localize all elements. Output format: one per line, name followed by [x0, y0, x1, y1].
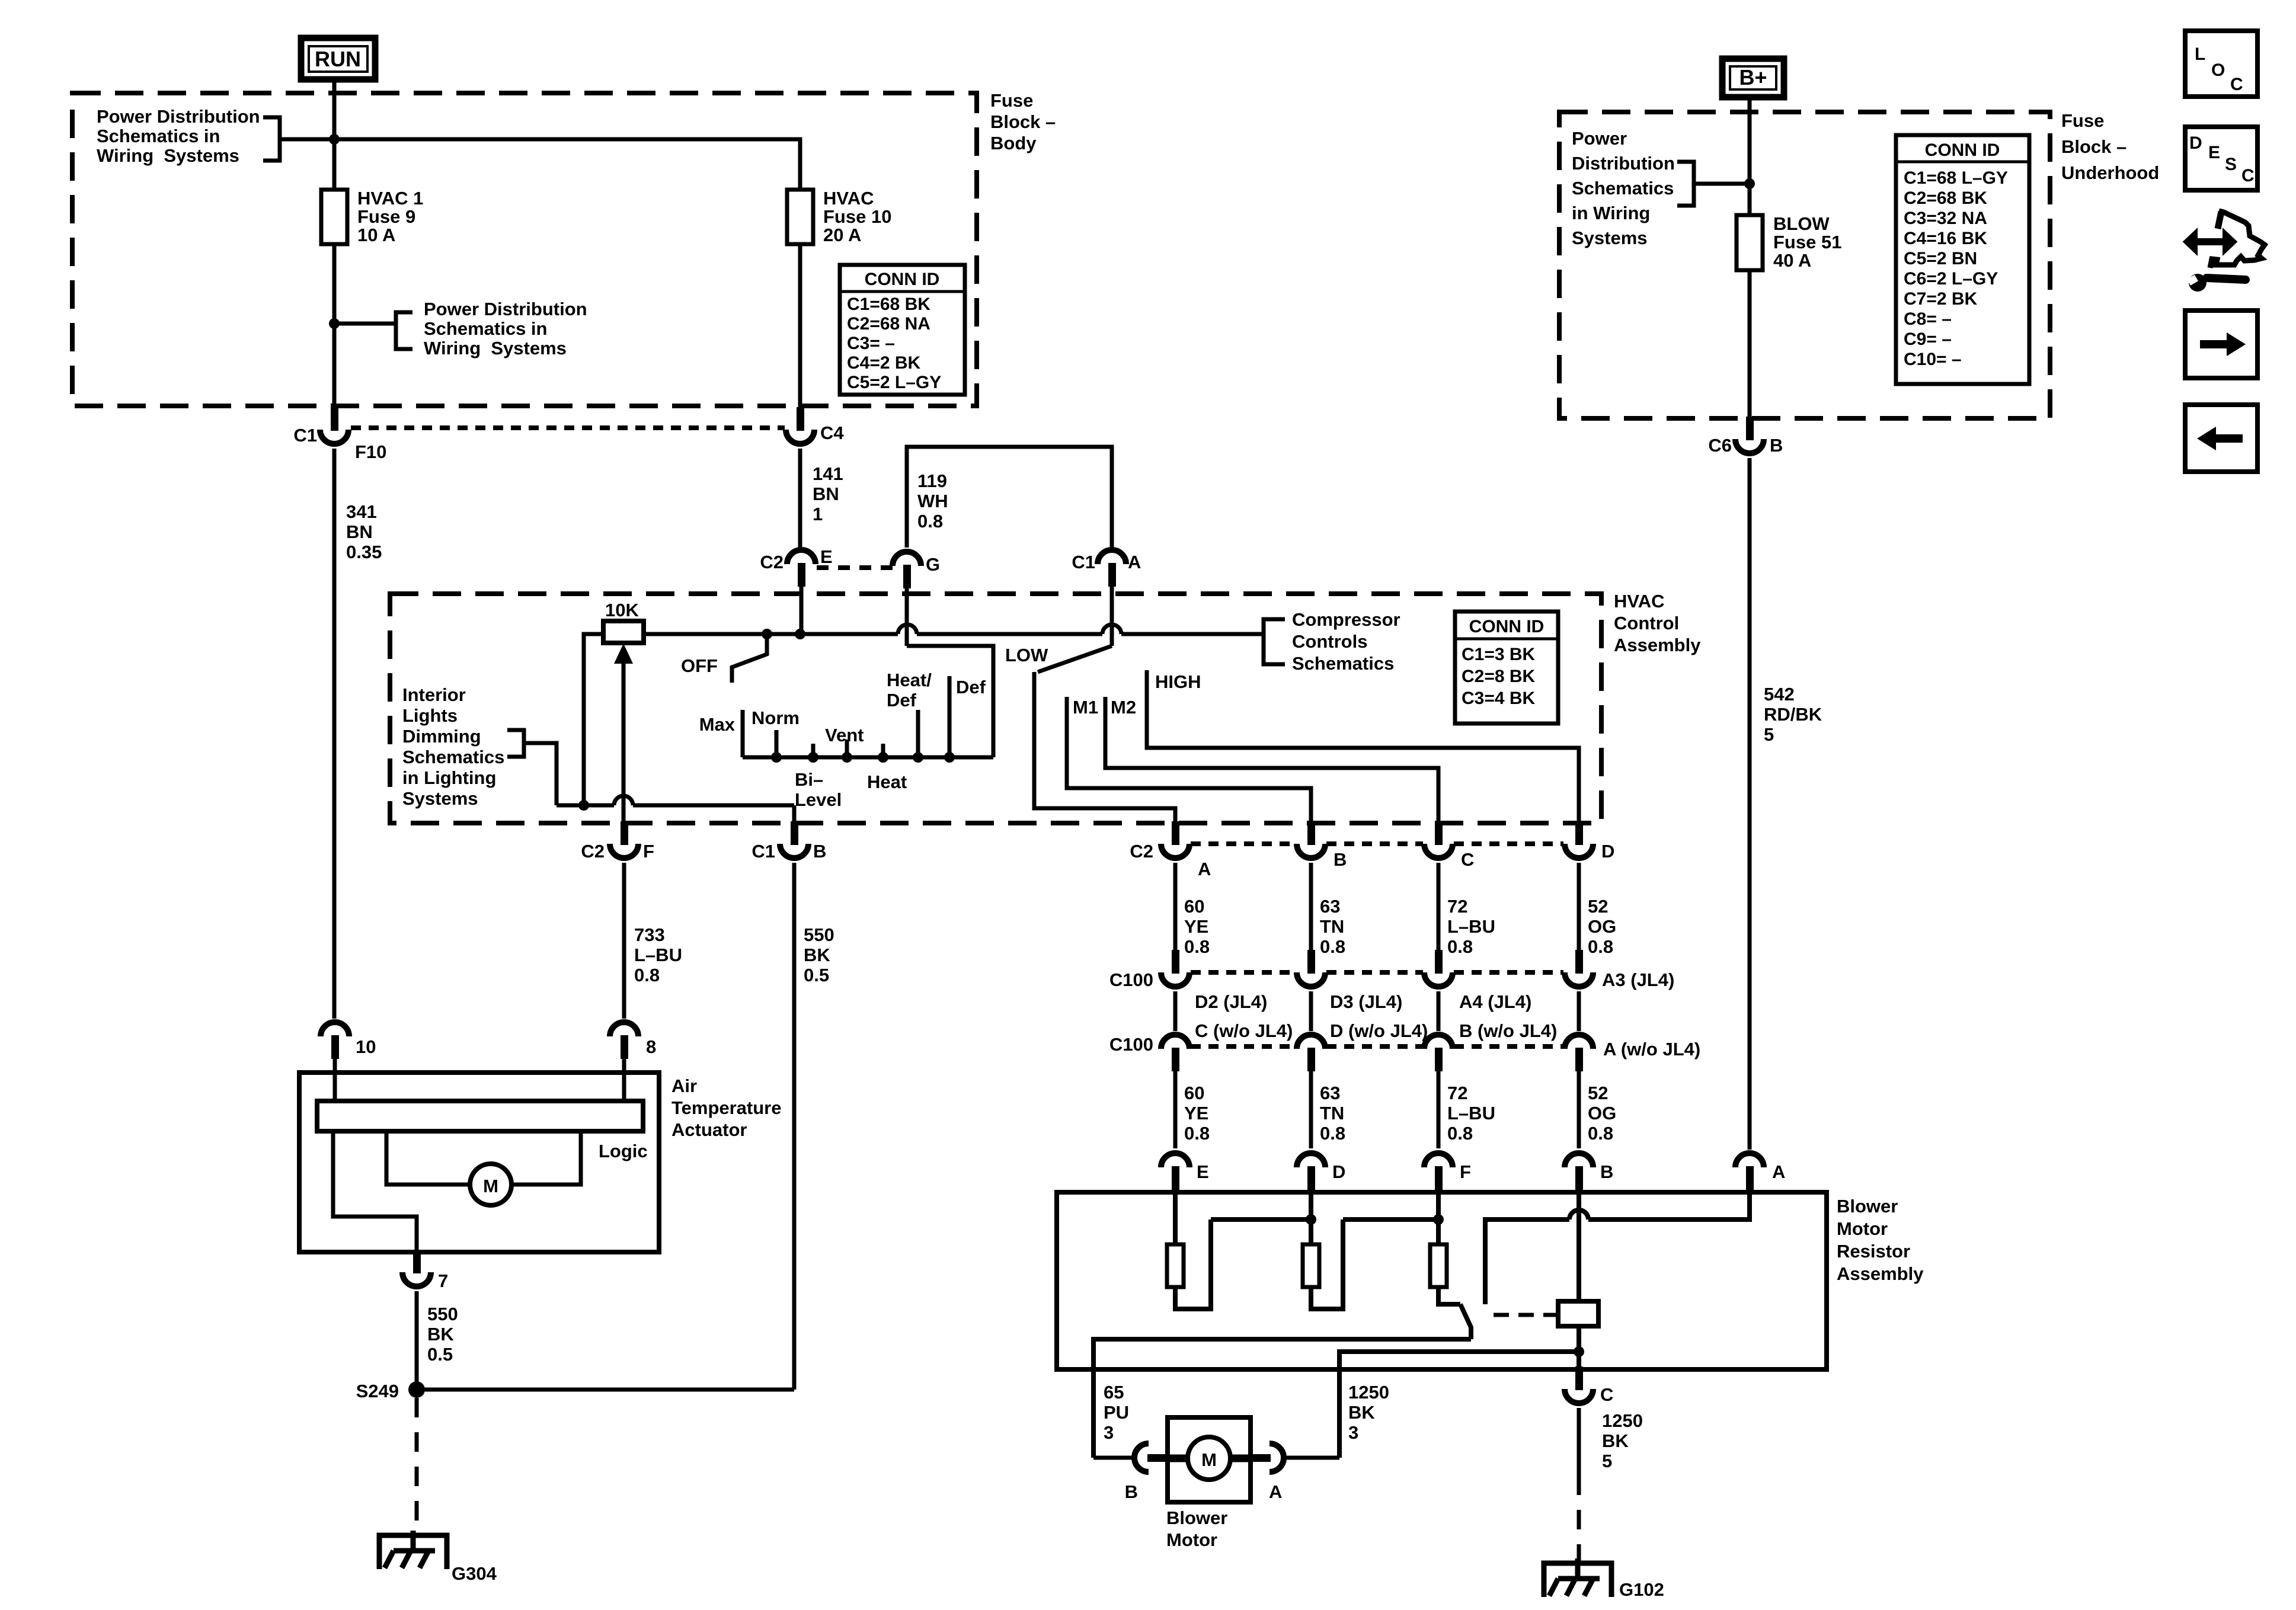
contact Norm: [775, 730, 779, 757]
label 341 BN 0.35: [346, 501, 382, 562]
svg-text:TN: TN: [1320, 916, 1344, 937]
icon back arrow box: [2185, 405, 2257, 472]
label 1250 BK 3: [1348, 1382, 1389, 1443]
svg-text:Blower: Blower: [1166, 1507, 1227, 1528]
wire fuse10 to C4: [798, 244, 802, 407]
reference bracket Compressor Controls Schematics: [1264, 619, 1285, 664]
svg-text:HIGH: HIGH: [1155, 671, 1201, 692]
svg-text:Vent: Vent: [825, 725, 864, 745]
wire R2 to bus2: [1311, 1219, 1343, 1309]
label 542 RD/BK 5: [1764, 684, 1822, 745]
svg-text:C4: C4: [820, 422, 844, 443]
svg-text:0.8: 0.8: [1184, 1123, 1210, 1144]
contact M1 to pin B: [1067, 697, 1311, 828]
connector pin C blower motor resistor: [1565, 1366, 1593, 1403]
svg-text:Max: Max: [699, 714, 736, 735]
motor M blower: [1188, 1437, 1230, 1480]
wire 60 YE 0.8 upper: [1173, 863, 1178, 950]
contact Heat/Def: [916, 710, 920, 757]
wire 60 YE 0.8 lower: [1173, 1069, 1178, 1148]
label Fuse Block - Underhood: [2061, 110, 2159, 183]
svg-text:0.8: 0.8: [1184, 936, 1210, 957]
svg-text:Heat: Heat: [867, 772, 907, 792]
svg-text:C7=2 BK: C7=2 BK: [1904, 289, 1978, 309]
svg-text:A: A: [1128, 552, 1141, 572]
label HVAC 1 Fuse 9 10 A: [357, 188, 423, 245]
svg-text:Power Distribution: Power Distribution: [424, 299, 587, 319]
svg-text:Assembly: Assembly: [1614, 635, 1701, 655]
svg-text:C3= –: C3= –: [847, 334, 895, 353]
svg-text:72: 72: [1447, 896, 1467, 917]
node junction 10K low end: [578, 800, 589, 811]
svg-text:Wiring Systems: Wiring Systems: [97, 145, 239, 166]
label 550 BK 0.5 (left): [427, 1304, 458, 1365]
wire 52 OG 0.8 upper: [1577, 863, 1581, 950]
svg-text:Blower: Blower: [1837, 1196, 1898, 1217]
svg-text:0.35: 0.35: [346, 542, 382, 562]
label 60 YE 0.8 lower: [1184, 1083, 1210, 1144]
node junction bus2-F: [1433, 1214, 1444, 1225]
svg-text:B: B: [1770, 435, 1783, 456]
connector C2 pin A hvac control (blower): [1161, 821, 1189, 858]
svg-text:in Wiring: in Wiring: [1572, 203, 1650, 223]
svg-text:65: 65: [1104, 1382, 1124, 1403]
svg-text:5: 5: [1602, 1451, 1612, 1471]
contact Def: [948, 676, 952, 757]
svg-text:0.8: 0.8: [634, 965, 660, 985]
svg-text:TN: TN: [1320, 1103, 1344, 1124]
connector C4 fuse block body: [786, 407, 814, 444]
wire 10K left lead: [584, 634, 603, 805]
svg-text:40 A: 40 A: [1773, 250, 1811, 271]
label Compressor Controls Schematics: [1292, 609, 1400, 674]
label 141 BN 1: [813, 463, 843, 524]
svg-text:G: G: [926, 554, 940, 575]
in-line connector dotted line C100 row 1: [1191, 970, 1563, 975]
svg-text:Fuse: Fuse: [990, 90, 1033, 111]
contact Heat: [881, 744, 885, 757]
svg-text:60: 60: [1184, 896, 1204, 917]
svg-text:G304: G304: [452, 1563, 497, 1584]
svg-text:0.8: 0.8: [1588, 1123, 1613, 1144]
wire to right power distribution bracket: [334, 322, 396, 326]
svg-text:550: 550: [804, 924, 834, 945]
connector C2 pin E hvac control: [787, 550, 816, 587]
wire S249 to ground dashed: [415, 1398, 419, 1534]
wire fuse51 to C6: [1748, 270, 1752, 417]
wire 119 WH 0.8 loop: [907, 447, 1112, 548]
label 1250 BK 5: [1602, 1410, 1643, 1471]
motor M actuator: [470, 1164, 511, 1205]
label HVAC Control Assembly: [1614, 591, 1701, 655]
svg-text:3: 3: [1104, 1422, 1114, 1443]
svg-text:YE: YE: [1184, 916, 1208, 937]
svg-text:Wiring Systems: Wiring Systems: [424, 338, 567, 359]
svg-text:B+: B+: [1739, 65, 1767, 89]
connector pin G hvac control: [893, 552, 921, 588]
wire 550 BK 0.5 from pin B: [792, 863, 797, 1390]
svg-text:141: 141: [813, 463, 843, 484]
motor internal leads: [1169, 1455, 1249, 1462]
label BLOW Fuse 51 40 A: [1773, 213, 1841, 271]
svg-text:Block –: Block –: [990, 111, 1056, 132]
wire C100 link: [1577, 991, 1581, 1031]
label 63 TN 0.8 upper: [1320, 896, 1345, 957]
connector pin E blower motor resistor: [1161, 1153, 1189, 1190]
connector C100 (w/o JL4 side): [1297, 1035, 1325, 1071]
svg-text:B: B: [813, 841, 826, 862]
connector C2 pin D hvac control (blower): [1565, 821, 1593, 858]
svg-text:C2=68 NA: C2=68 NA: [847, 314, 930, 334]
svg-text:PU: PU: [1104, 1402, 1129, 1423]
reference bracket Power Distribution (left): [263, 117, 280, 161]
svg-text:Schematics in: Schematics in: [97, 126, 220, 146]
label Power Distribution Schematics in Wiring Systems (mid): [424, 299, 587, 359]
contact HIGH to pin D: [1147, 670, 1579, 828]
svg-text:F10: F10: [355, 441, 386, 462]
wire pin8 into bar: [622, 1055, 626, 1101]
label Fuse Block - Body: [990, 90, 1056, 153]
relay switch blade: [1460, 1304, 1471, 1339]
svg-text:M: M: [1201, 1449, 1217, 1470]
wire to G102 dashed: [1577, 1475, 1581, 1561]
svg-text:Fuse 10: Fuse 10: [823, 206, 891, 227]
svg-text:O: O: [2211, 60, 2225, 80]
svg-text:Interior: Interior: [402, 684, 466, 705]
svg-text:OG: OG: [1588, 1103, 1616, 1124]
wire pin F to resistor 3: [1436, 1190, 1441, 1244]
svg-text:341: 341: [346, 501, 377, 522]
svg-text:E: E: [820, 546, 833, 567]
wire motor A to 1250 BK 3: [1284, 1456, 1339, 1460]
reference bracket interior lights dimming: [507, 730, 524, 757]
label 119 WH 0.8: [917, 470, 948, 532]
actuator logic bar: [317, 1101, 643, 1131]
svg-text:10 A: 10 A: [357, 225, 395, 245]
svg-text:B: B: [1334, 849, 1347, 870]
wire C100 link: [1437, 991, 1441, 1031]
svg-text:C1: C1: [1072, 552, 1095, 572]
reference bracket Power Distribution (right): [396, 312, 412, 349]
svg-text:C10= –: C10= –: [1904, 350, 1962, 369]
svg-text:CONN ID: CONN ID: [1469, 617, 1544, 636]
svg-text:0.5: 0.5: [427, 1344, 453, 1365]
connector C2 pin C hvac control (blower): [1424, 821, 1453, 858]
svg-text:550: 550: [427, 1304, 458, 1324]
connector C100 (JL4 side): [1424, 950, 1453, 987]
svg-text:Resistor: Resistor: [1837, 1241, 1910, 1262]
svg-text:C: C: [1461, 849, 1474, 870]
potentiometer wiper arrow: [614, 644, 633, 828]
svg-text:Schematics: Schematics: [1572, 178, 1674, 199]
svg-text:Schematics: Schematics: [402, 747, 504, 767]
svg-text:LOW: LOW: [1005, 645, 1048, 665]
icon LOC box: [2185, 31, 2257, 97]
svg-text:C6=2 L–GY: C6=2 L–GY: [1904, 269, 1998, 289]
svg-text:RD/BK: RD/BK: [1764, 704, 1822, 725]
wire 63 TN 0.8 upper: [1309, 863, 1313, 950]
connector C1 pin B hvac control: [780, 821, 808, 858]
svg-text:D (w/o JL4): D (w/o JL4): [1330, 1020, 1428, 1041]
svg-text:20 A: 20 A: [823, 225, 861, 245]
svg-text:G102: G102: [1619, 1579, 1664, 1600]
svg-text:S249: S249: [356, 1381, 399, 1401]
wire mode switch feed from G: [907, 646, 993, 757]
svg-text:YE: YE: [1184, 1103, 1208, 1124]
node junction OFF pivot: [762, 629, 772, 639]
label 65 PU 3: [1104, 1382, 1129, 1443]
svg-text:C100: C100: [1109, 1034, 1153, 1055]
relay actuation dashed link: [1494, 1313, 1556, 1317]
svg-text:C1: C1: [293, 425, 317, 446]
svg-text:Assembly: Assembly: [1837, 1263, 1924, 1284]
svg-text:119: 119: [917, 470, 947, 491]
svg-text:63: 63: [1320, 1083, 1340, 1103]
svg-text:0.8: 0.8: [1447, 1123, 1473, 1144]
svg-text:7: 7: [438, 1270, 448, 1291]
svg-text:Def: Def: [956, 677, 986, 697]
switch LOW blade: [1038, 646, 1112, 672]
svg-text:1250: 1250: [1602, 1410, 1643, 1431]
svg-text:C6: C6: [1708, 435, 1732, 456]
svg-text:in Lighting: in Lighting: [402, 767, 496, 788]
svg-text:C2: C2: [760, 552, 784, 572]
svg-text:D2 (JL4): D2 (JL4): [1195, 991, 1267, 1012]
contact Max: [741, 710, 745, 757]
svg-text:Fuse 9: Fuse 9: [357, 206, 415, 227]
svg-text:CONN ID: CONN ID: [1925, 140, 2000, 160]
connector C100 (JL4 side): [1565, 950, 1593, 987]
svg-text:0.8: 0.8: [917, 511, 943, 532]
node junction to power distribution ref: [329, 318, 340, 329]
wire motor return to junction: [1339, 1352, 1579, 1458]
ground G102: [1544, 1558, 1611, 1597]
label 550 BK 0.5 (right): [804, 924, 834, 985]
svg-text:Motor: Motor: [1166, 1529, 1217, 1550]
svg-text:L: L: [2195, 44, 2205, 64]
wire bus1 to pin D column: [1211, 1217, 1311, 1222]
svg-text:52: 52: [1588, 1083, 1608, 1103]
ground G304: [379, 1531, 447, 1569]
connector C100 (JL4 side): [1161, 950, 1189, 987]
svg-text:Systems: Systems: [1572, 228, 1648, 248]
svg-text:F: F: [1460, 1161, 1471, 1182]
svg-text:Bi–: Bi–: [795, 769, 823, 790]
wire 63 TN 0.8 lower: [1309, 1069, 1313, 1148]
svg-text:Body: Body: [990, 133, 1037, 153]
svg-text:BN: BN: [346, 521, 373, 542]
mode switch common bar: [743, 756, 993, 760]
svg-text:Systems: Systems: [402, 788, 478, 809]
label Power Distribution Schematics in Wiring Systems (underhood): [1572, 128, 1675, 248]
svg-text:E: E: [1197, 1161, 1209, 1182]
wire bus to HVAC Fuse 10: [280, 139, 800, 190]
connector C1 pin A hvac control: [1098, 550, 1126, 587]
svg-text:C: C: [1600, 1384, 1613, 1405]
connector table CONN ID fuse block body: [840, 265, 965, 395]
svg-text:63: 63: [1320, 896, 1340, 917]
svg-text:D: D: [1332, 1161, 1345, 1182]
resistor R3 (M2 speed): [1430, 1244, 1447, 1287]
svg-text:Motor: Motor: [1837, 1218, 1888, 1239]
svg-text:Def: Def: [887, 690, 917, 710]
svg-text:HVAC: HVAC: [1614, 591, 1665, 612]
contact Bi-Level: [811, 744, 816, 757]
svg-text:Distribution: Distribution: [1572, 153, 1675, 174]
connector table CONN ID hvac control: [1455, 612, 1558, 724]
wire B+ feed: [1748, 97, 1752, 215]
svg-text:0.8: 0.8: [1447, 936, 1473, 957]
wire 52 OG 0.8 lower: [1577, 1069, 1581, 1148]
wire pin E drop: [800, 583, 804, 634]
svg-text:C (w/o JL4): C (w/o JL4): [1195, 1020, 1293, 1041]
svg-text:L–BU: L–BU: [1447, 916, 1495, 937]
svg-text:1: 1: [813, 504, 823, 524]
label 72 L&#8211;BU 0.8 upper: [1447, 896, 1495, 957]
wire bus2 to pin F column: [1343, 1217, 1438, 1222]
svg-text:A: A: [1269, 1481, 1282, 1502]
svg-text:Level: Level: [795, 789, 842, 810]
svg-text:M: M: [483, 1176, 498, 1196]
svg-text:BN: BN: [813, 484, 839, 504]
svg-text:Norm: Norm: [752, 708, 800, 728]
svg-text:A: A: [1198, 859, 1211, 879]
svg-text:HVAC: HVAC: [823, 188, 874, 209]
in-line connector dotted line C2 row: [1191, 841, 1563, 846]
svg-text:C9= –: C9= –: [1904, 329, 1952, 349]
connector C6 pin B fuse block underhood: [1735, 417, 1764, 453]
relay coil: [1558, 1301, 1598, 1326]
node junction pin E: [795, 629, 805, 639]
wire blade output to blower motor B: [1093, 1339, 1471, 1458]
svg-text:10K: 10K: [605, 600, 639, 620]
connector pin A blower motor resistor: [1735, 1153, 1764, 1190]
wire main switch bus with hops: [644, 625, 1264, 634]
svg-text:BK: BK: [1602, 1430, 1629, 1451]
svg-text:M1: M1: [1073, 697, 1098, 718]
svg-text:BK: BK: [804, 945, 830, 965]
svg-text:Controls: Controls: [1292, 631, 1367, 652]
connector pin B blower motor: [1134, 1443, 1169, 1472]
svg-text:C4=2 BK: C4=2 BK: [847, 353, 921, 373]
svg-text:Schematics in: Schematics in: [424, 318, 547, 339]
svg-text:B: B: [1125, 1481, 1138, 1502]
wire R1 to bus1: [1175, 1219, 1211, 1309]
wire pin D to resistor 2: [1309, 1190, 1313, 1244]
svg-text:C5=2 L–GY: C5=2 L–GY: [847, 373, 941, 392]
svg-text:C2=68 BK: C2=68 BK: [1904, 188, 1987, 208]
wire 341 BN 0.35: [332, 449, 337, 1019]
svg-text:C: C: [2230, 75, 2243, 94]
svg-text:CONN ID: CONN ID: [865, 270, 940, 289]
B+ battery voltage box: [1722, 59, 1784, 97]
svg-text:0.8: 0.8: [1588, 936, 1613, 957]
connector pin F blower motor resistor: [1424, 1153, 1453, 1190]
svg-text:S: S: [2225, 155, 2237, 174]
label Blower Motor: [1166, 1507, 1227, 1550]
label HVAC Fuse 10 20 A: [823, 188, 891, 245]
wire 1250 BK 5: [1577, 1408, 1581, 1475]
svg-text:C2: C2: [1130, 841, 1153, 862]
dashed connector line E to G: [817, 565, 893, 570]
svg-text:C2=8 BK: C2=8 BK: [1462, 667, 1536, 686]
svg-text:B (w/o JL4): B (w/o JL4): [1459, 1020, 1557, 1041]
contact Vent: [845, 740, 849, 757]
svg-text:Dimming: Dimming: [402, 726, 481, 747]
svg-text:A: A: [1772, 1161, 1785, 1182]
wire 65 PU to motor connector B: [1093, 1456, 1133, 1460]
wire pin G drop: [905, 585, 909, 646]
wire S249 to pin B wire: [417, 1388, 794, 1392]
svg-text:D3 (JL4): D3 (JL4): [1330, 991, 1402, 1012]
svg-text:Power: Power: [1572, 128, 1627, 149]
wire fuse9 to C1: [332, 244, 337, 407]
wire 141 BN 1: [798, 449, 802, 548]
RUN ignition voltage box: [301, 38, 375, 79]
connector pin 7 air temperature actuator: [402, 1250, 431, 1286]
svg-text:D: D: [1601, 841, 1614, 862]
svg-text:C2: C2: [581, 841, 605, 862]
svg-text:D: D: [2189, 133, 2202, 153]
in-line connector dotted line C1-C4: [351, 425, 785, 430]
label Blower Motor Resistor Assembly: [1837, 1196, 1924, 1284]
svg-text:OFF: OFF: [681, 655, 718, 676]
wire 550 BK 0.5 to S249: [415, 1291, 419, 1390]
svg-text:BK: BK: [427, 1324, 454, 1345]
svg-text:542: 542: [1764, 684, 1795, 705]
svg-text:BLOW: BLOW: [1773, 213, 1830, 234]
label 52 OG 0.8 lower: [1588, 1083, 1616, 1144]
wire pin B rise: [792, 805, 797, 822]
svg-text:C1=68 BK: C1=68 BK: [847, 295, 930, 314]
svg-text:C1=3 BK: C1=3 BK: [1462, 645, 1536, 664]
svg-text:Control: Control: [1614, 613, 1679, 633]
svg-text:A3 (JL4): A3 (JL4): [1602, 969, 1674, 990]
switch OFF blade: [732, 634, 767, 683]
label Bi-Level: [795, 769, 842, 810]
svg-text:C3=4 BK: C3=4 BK: [1462, 689, 1536, 708]
connector pin B blower motor resistor: [1565, 1153, 1593, 1190]
icon forward arrow box: [2185, 311, 2257, 378]
svg-text:Air: Air: [671, 1076, 697, 1096]
node junction B+ ref: [1744, 178, 1755, 189]
svg-text:0.8: 0.8: [1320, 936, 1345, 957]
connector C100 (JL4 side): [1297, 950, 1325, 987]
fuse HVAC 1 Fuse 9 10 A: [321, 190, 347, 244]
svg-text:Temperature: Temperature: [671, 1097, 782, 1118]
wire 542 RD/BK 5: [1748, 458, 1752, 1150]
wire C100 link: [1309, 991, 1313, 1031]
connector pin 8 air temperature actuator: [610, 1022, 638, 1059]
svg-text:HVAC 1: HVAC 1: [357, 188, 423, 209]
label 733 L-BU 0.8: [634, 924, 682, 985]
connector C2 pin B hvac control (blower): [1297, 821, 1325, 858]
svg-text:8: 8: [646, 1036, 656, 1057]
wire R3 to relay blade: [1438, 1287, 1460, 1304]
wire actuator pin 7 internal: [333, 1131, 417, 1251]
node junction bus1-D: [1306, 1214, 1316, 1225]
in-line connector dotted line C100 row 2: [1191, 1044, 1563, 1049]
svg-text:BK: BK: [1348, 1402, 1375, 1423]
svg-text:B: B: [1600, 1161, 1613, 1182]
label Interior Lights Dimming Schematics in Lighting Systems: [402, 684, 504, 809]
wire pin A drop: [1110, 583, 1114, 646]
svg-text:Power Distribution: Power Distribution: [97, 106, 260, 127]
label 60 YE 0.8 upper: [1184, 896, 1210, 957]
svg-text:1250: 1250: [1348, 1382, 1389, 1403]
svg-text:RUN: RUN: [315, 47, 361, 71]
wire dimming bus with hop over wiper: [557, 796, 794, 805]
